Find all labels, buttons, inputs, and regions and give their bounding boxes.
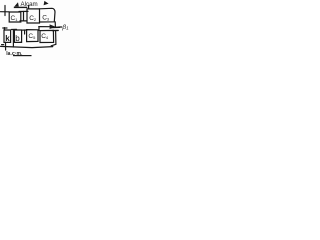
svg-text:C2: C2 <box>29 15 37 22</box>
svg-text:k: k <box>5 34 10 43</box>
svg-text:C1: C1 <box>11 15 19 22</box>
svg-text:C5: C5 <box>28 33 36 40</box>
svg-text:Alcam: Alcam <box>21 1 38 8</box>
svg-text:C3: C3 <box>42 14 50 21</box>
svg-text:β1: β1 <box>61 24 69 31</box>
svg-text:C4: C4 <box>41 33 49 40</box>
